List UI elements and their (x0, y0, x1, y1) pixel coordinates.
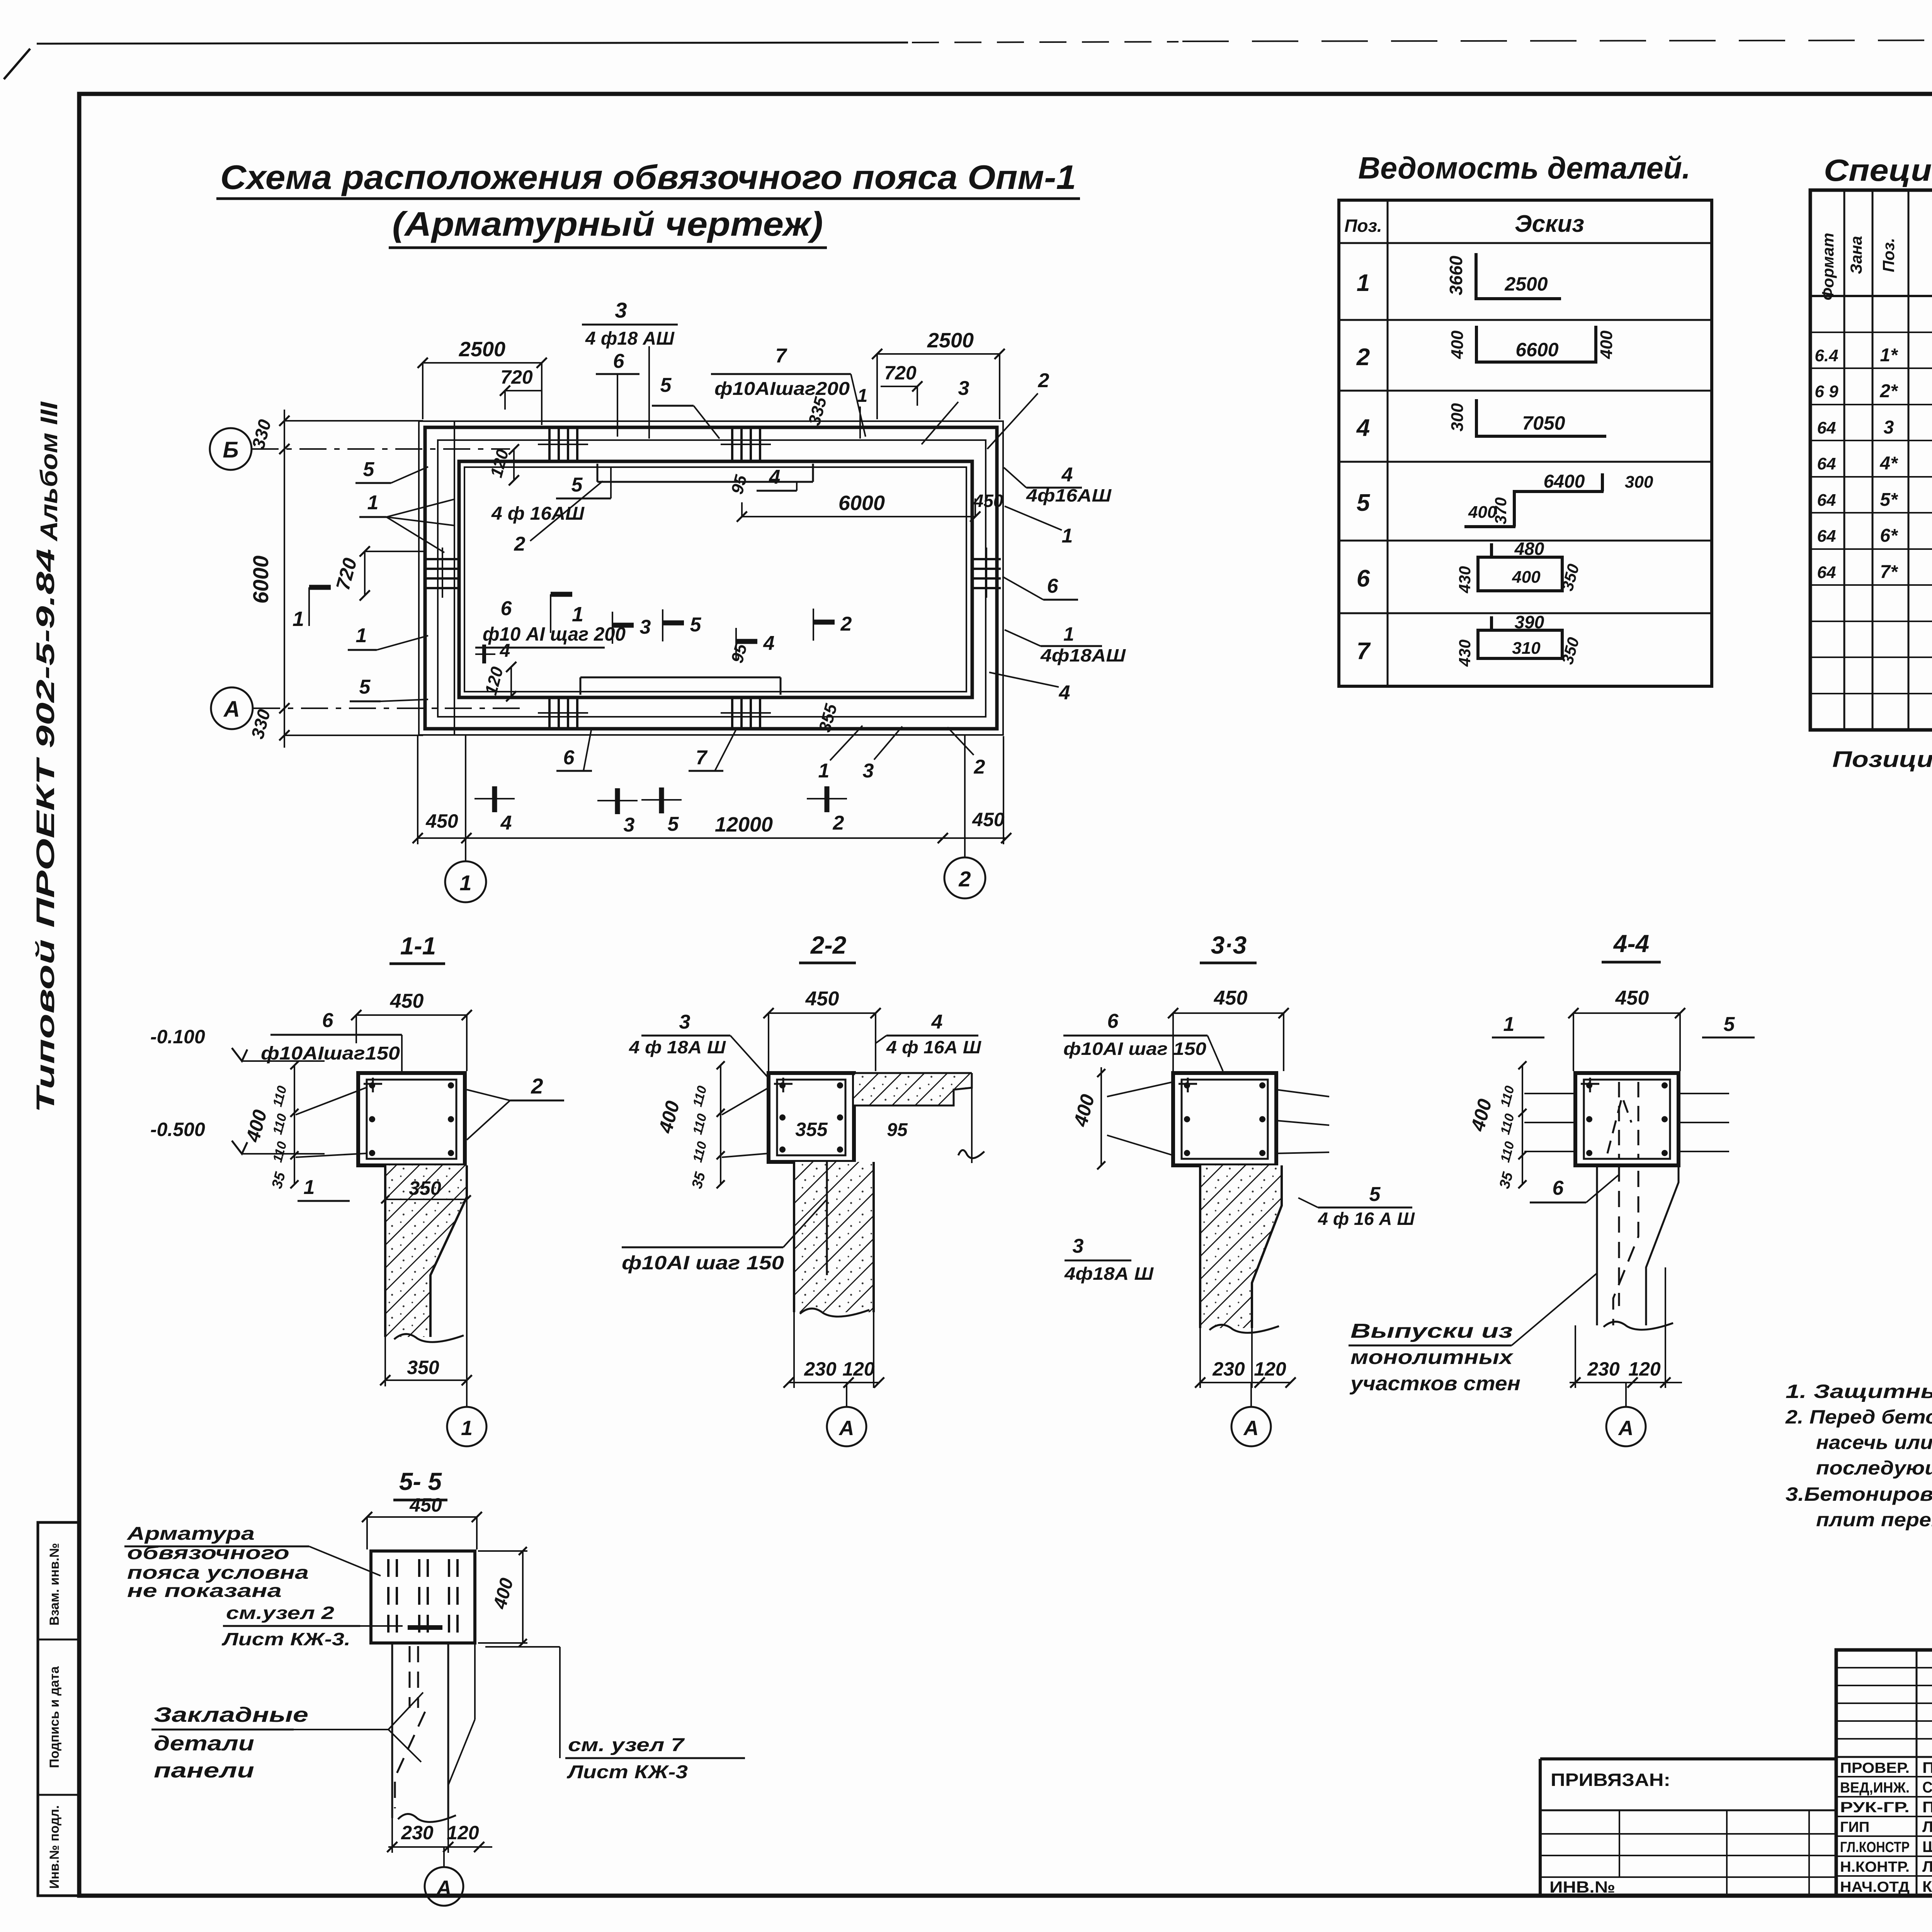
svg-text:1: 1 (461, 1417, 473, 1440)
svg-text:панели: панели (154, 1759, 254, 1782)
svg-text:1: 1 (356, 624, 367, 647)
svg-text:450: 450 (425, 810, 458, 832)
svg-text:450: 450 (1615, 987, 1649, 1009)
svg-text:1: 1 (304, 1176, 315, 1199)
svg-text:64: 64 (1817, 491, 1836, 510)
svg-text:4: 4 (500, 812, 512, 834)
svg-text:2: 2 (958, 867, 971, 891)
svg-text:400: 400 (1448, 330, 1467, 359)
svg-text:Формат: Формат (1819, 233, 1837, 300)
svg-text:1-1: 1-1 (400, 932, 436, 960)
svg-text:4: 4 (1059, 682, 1070, 704)
svg-text:ф10АІшаг150: ф10АІшаг150 (261, 1043, 400, 1064)
svg-text:4: 4 (769, 466, 781, 488)
svg-text:Н.КОНТР.: Н.КОНТР. (1840, 1859, 1910, 1875)
svg-text:обвязочного: обвязочного (127, 1543, 289, 1563)
svg-text:6*: 6* (1880, 526, 1898, 546)
svg-text:12000: 12000 (715, 813, 773, 836)
svg-text:3: 3 (640, 616, 651, 638)
svg-text:ПИСЬМАН: ПИСЬМАН (1922, 1759, 1932, 1776)
svg-text:ф10АІ шаг 150: ф10АІ шаг 150 (1063, 1039, 1206, 1059)
svg-text:64: 64 (1817, 454, 1836, 473)
svg-text:1: 1 (818, 760, 830, 782)
svg-text:5: 5 (690, 614, 702, 636)
svg-text:390: 390 (1515, 612, 1544, 632)
svg-text:2-2: 2-2 (810, 931, 847, 959)
svg-text:РУК-ГР.: РУК-ГР. (1840, 1799, 1910, 1816)
svg-text:120: 120 (1254, 1358, 1286, 1380)
svg-text:Арматура: Арматура (127, 1524, 255, 1544)
svg-text:350: 350 (407, 1357, 439, 1378)
svg-text:ПРИВЯЗАН:: ПРИВЯЗАН: (1551, 1770, 1670, 1790)
svg-text:НАЧ.ОТД: НАЧ.ОТД (1840, 1879, 1910, 1895)
svg-text:4: 4 (1356, 415, 1370, 441)
svg-text:64: 64 (1817, 418, 1836, 437)
svg-text:1: 1 (1357, 270, 1370, 296)
svg-text:4 ф 18А Ш: 4 ф 18А Ш (629, 1037, 726, 1057)
svg-text:ф10АІ шаг 150: ф10АІ шаг 150 (622, 1252, 784, 1274)
svg-text:720: 720 (884, 362, 917, 384)
svg-text:6: 6 (613, 350, 625, 372)
svg-text:ГЛ.КОНСТР: ГЛ.КОНСТР (1840, 1839, 1910, 1855)
svg-text:7: 7 (696, 747, 708, 769)
svg-text:5*: 5* (1880, 490, 1898, 510)
svg-text:7: 7 (776, 345, 787, 367)
svg-text:5: 5 (359, 676, 371, 698)
svg-text:Закладные: Закладные (154, 1703, 308, 1726)
svg-text:ШАПИРО: ШАПИРО (1922, 1838, 1932, 1855)
svg-text:2*: 2* (1879, 381, 1898, 401)
svg-text:400: 400 (1597, 330, 1616, 359)
svg-text:4: 4 (931, 1011, 943, 1033)
svg-text:ф10 АІ щаг 200: ф10 АІ щаг 200 (483, 623, 626, 645)
svg-text:4*: 4* (1879, 453, 1898, 474)
svg-text:64: 64 (1817, 527, 1836, 546)
svg-text:5- 5: 5- 5 (399, 1468, 442, 1495)
svg-text:КОПИРОВАЛ) ЛОГИНОВА: КОПИРОВАЛ) ЛОГИНОВА (1845, 1929, 1932, 1932)
svg-text:3: 3 (1884, 417, 1894, 438)
svg-text:4: 4 (1061, 464, 1073, 486)
svg-text:Эскиз: Эскиз (1515, 211, 1584, 237)
svg-text:720: 720 (500, 366, 533, 388)
svg-text:120: 120 (842, 1358, 875, 1380)
svg-text:Поз.: Поз. (1879, 238, 1898, 272)
svg-text:-0.500: -0.500 (150, 1119, 205, 1140)
svg-text:2: 2 (840, 613, 852, 635)
svg-text:ЛЕВИНА: ЛЕВИНА (1922, 1858, 1932, 1875)
svg-text:не показана: не показана (127, 1581, 282, 1601)
svg-text:450: 450 (1214, 987, 1248, 1009)
svg-text:Подпись и дата: Подпись и дата (47, 1666, 62, 1768)
svg-text:ПРОВЕР.: ПРОВЕР. (1840, 1760, 1910, 1776)
svg-text:450: 450 (972, 809, 1005, 830)
svg-text:450: 450 (805, 988, 839, 1010)
svg-text:1: 1 (1062, 525, 1073, 547)
svg-text:СМЫСЛОВА: СМЫСЛОВА (1922, 1779, 1932, 1796)
svg-text:6000: 6000 (838, 492, 885, 515)
svg-text:230: 230 (804, 1358, 837, 1380)
svg-text:Спецификация обвязочного поя: Спецификация обвязочного пояса ОПм-1 (1824, 153, 1932, 187)
svg-text:ИНВ.№: ИНВ.№ (1549, 1878, 1615, 1896)
svg-text:310: 310 (1512, 639, 1541, 658)
svg-text:-0.100: -0.100 (150, 1026, 205, 1048)
svg-text:3: 3 (624, 814, 635, 836)
svg-text:5: 5 (1369, 1183, 1381, 1206)
svg-text:1: 1 (459, 871, 471, 895)
svg-text:Лист КЖ-3: Лист КЖ-3 (566, 1762, 688, 1782)
svg-text:120: 120 (1628, 1358, 1661, 1380)
svg-text:6.4: 6.4 (1815, 346, 1838, 365)
svg-text:2: 2 (531, 1074, 543, 1098)
svg-text:5: 5 (1724, 1013, 1735, 1036)
svg-text:480: 480 (1514, 539, 1544, 559)
svg-text:Б: Б (223, 437, 238, 463)
svg-text:370: 370 (1492, 497, 1510, 524)
svg-text:5: 5 (1357, 490, 1371, 516)
svg-text:2: 2 (514, 533, 526, 555)
svg-text:3: 3 (679, 1011, 690, 1033)
svg-text:4-4: 4-4 (1613, 930, 1650, 957)
svg-text:2. Перед бетонированием обвяз: 2. Перед бетонированием обвязочного пояс… (1785, 1406, 1932, 1428)
svg-text:пояса условна: пояса условна (127, 1563, 309, 1583)
svg-text:детали: детали (154, 1732, 254, 1755)
svg-text:(Арматурный чертеж): (Арматурный чертеж) (392, 205, 823, 243)
svg-text:2: 2 (1356, 344, 1370, 371)
svg-text:6400: 6400 (1544, 471, 1585, 492)
svg-text:Схема расположения обвязочного: Схема расположения обвязочного пояса Опм… (220, 158, 1076, 196)
svg-text:450: 450 (409, 1494, 442, 1516)
svg-text:3: 3 (958, 377, 969, 400)
svg-text:см. узел 7: см. узел 7 (568, 1735, 685, 1755)
svg-text:350: 350 (409, 1177, 441, 1199)
svg-text:5: 5 (363, 458, 375, 481)
svg-text:1: 1 (367, 492, 379, 514)
svg-text:6: 6 (322, 1009, 334, 1032)
svg-text:1: 1 (1503, 1013, 1515, 1036)
svg-text:3·3: 3·3 (1211, 931, 1247, 959)
svg-text:3660: 3660 (1446, 255, 1466, 295)
svg-text:230: 230 (1587, 1358, 1620, 1380)
svg-text:А: А (1243, 1417, 1259, 1440)
svg-text:450: 450 (390, 990, 424, 1012)
svg-text:1: 1 (857, 386, 868, 406)
svg-text:А: А (838, 1417, 854, 1440)
svg-text:6: 6 (1107, 1010, 1119, 1032)
svg-text:7050: 7050 (1522, 412, 1565, 434)
svg-text:4ф18АШ: 4ф18АШ (1040, 645, 1126, 665)
svg-text:120: 120 (447, 1822, 479, 1844)
svg-text:3.Бетонирование обвязочного: 3.Бетонирование обвязочного пояса выполн… (1786, 1483, 1932, 1505)
svg-text:1: 1 (1063, 623, 1074, 645)
svg-text:430: 430 (1456, 639, 1474, 667)
svg-text:Ведомость деталей.: Ведомость деталей. (1358, 151, 1690, 185)
svg-text:Позиции*- см. ведомость детале: Позиции*- см. ведомость деталей на листе… (1832, 747, 1932, 772)
svg-text:ПИСЬМАН: ПИСЬМАН (1922, 1799, 1932, 1816)
svg-text:64: 64 (1817, 563, 1836, 582)
svg-text:2500: 2500 (927, 329, 974, 352)
svg-text:последующей промывкой водой.: последующей промывкой водой. (1816, 1457, 1932, 1479)
svg-text:5: 5 (660, 374, 672, 396)
svg-text:насечь или обработать с помощ: насечь или обработать с помощью пескостр… (1816, 1432, 1932, 1453)
svg-text:6: 6 (563, 747, 575, 769)
svg-text:плит перекрытия на отм. 0.0: плит перекрытия на отм. 0.000. (1816, 1509, 1932, 1531)
svg-text:95: 95 (887, 1120, 908, 1140)
svg-text:6000: 6000 (248, 556, 273, 604)
svg-text:300: 300 (1448, 403, 1467, 432)
svg-text:Инв.№ подл.: Инв.№ подл. (47, 1805, 62, 1889)
svg-text:5: 5 (668, 813, 679, 835)
svg-text:300: 300 (1625, 473, 1653, 492)
svg-text:монолитных: монолитных (1350, 1346, 1514, 1369)
svg-text:КРАСАВИН: КРАСАВИН (1922, 1878, 1932, 1895)
svg-text:Выпуски из: Выпуски из (1350, 1320, 1513, 1342)
svg-text:6: 6 (501, 597, 512, 620)
svg-text:2500: 2500 (1504, 273, 1548, 295)
svg-text:1: 1 (572, 603, 583, 626)
svg-text:4 ф 16 А Ш: 4 ф 16 А Ш (1318, 1209, 1415, 1229)
svg-text:6 9: 6 9 (1815, 382, 1838, 401)
svg-text:1*: 1* (1880, 345, 1898, 366)
svg-text:1: 1 (293, 607, 304, 631)
svg-text:2: 2 (1038, 369, 1049, 392)
svg-text:1. Защитный слой арматуры 2: 1. Защитный слой арматуры 25 мм. (1786, 1381, 1932, 1402)
svg-text:7*: 7* (1880, 562, 1898, 582)
svg-text:Альбом III: Альбом III (36, 401, 63, 542)
svg-text:ЛЕВИНА: ЛЕВИНА (1922, 1818, 1932, 1835)
svg-text:4ф18А Ш: 4ф18А Ш (1064, 1264, 1154, 1284)
svg-text:ф10АІшаг200: ф10АІшаг200 (714, 379, 850, 399)
svg-text:участков стен: участков стен (1349, 1372, 1520, 1395)
svg-text:4 ф 16АШ: 4 ф 16АШ (491, 503, 585, 524)
svg-text:ВЕД,ИНЖ.: ВЕД,ИНЖ. (1840, 1780, 1910, 1796)
svg-text:Зана: Зана (1847, 236, 1865, 274)
svg-text:230: 230 (401, 1822, 434, 1844)
svg-text:6600: 6600 (1515, 339, 1558, 361)
svg-text:Поз.: Поз. (1344, 216, 1382, 236)
svg-text:230: 230 (1212, 1358, 1245, 1380)
svg-text:3: 3 (615, 298, 627, 322)
svg-text:430: 430 (1456, 566, 1474, 594)
svg-text:7: 7 (1357, 638, 1371, 665)
svg-text:400: 400 (1512, 568, 1541, 587)
svg-text:4 ф 16А Ш: 4 ф 16А Ш (886, 1037, 981, 1057)
svg-text:2: 2 (833, 812, 844, 834)
svg-text:6: 6 (1047, 575, 1059, 597)
svg-text:Типовой ПРОЕКТ 902-5-9.84: Типовой ПРОЕКТ 902-5-9.84 (31, 549, 60, 1113)
svg-text:5: 5 (571, 474, 583, 496)
svg-text:3: 3 (863, 760, 874, 782)
svg-text:Лист КЖ-3.: Лист КЖ-3. (221, 1629, 350, 1649)
svg-text:450: 450 (973, 491, 1003, 511)
svg-text:6: 6 (1357, 565, 1370, 592)
svg-text:4ф16АШ: 4ф16АШ (1026, 485, 1112, 505)
svg-text:см.узел 2: см.узел 2 (226, 1603, 335, 1623)
svg-text:4: 4 (763, 632, 775, 655)
svg-text:А: А (1618, 1417, 1634, 1440)
svg-text:А: А (436, 1876, 452, 1900)
svg-text:ГИП: ГИП (1840, 1819, 1869, 1835)
svg-text:2: 2 (974, 756, 985, 778)
svg-text:3: 3 (1073, 1235, 1084, 1257)
svg-text:2500: 2500 (459, 338, 505, 361)
svg-text:4 ф18 АШ: 4 ф18 АШ (585, 328, 675, 349)
svg-text:Взам. инв.№: Взам. инв.№ (47, 1543, 62, 1626)
svg-text:355: 355 (795, 1119, 828, 1140)
svg-text:6: 6 (1553, 1177, 1564, 1199)
svg-text:А: А (223, 697, 240, 722)
